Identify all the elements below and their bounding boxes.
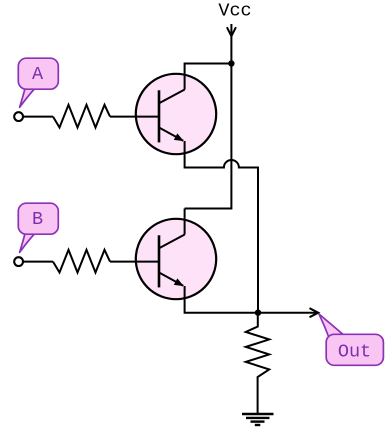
wire resistor R2 to Q2 base bbox=[110, 261, 159, 263]
callout bubble Out bbox=[319, 314, 383, 365]
output node dot bbox=[255, 310, 261, 316]
wire Q1 collector to Vcc rail bbox=[185, 64, 232, 90]
svg-text:B: B bbox=[32, 209, 43, 230]
node junction dot at Vcc rail bbox=[228, 60, 234, 66]
wire terminal A to resistor R1 bbox=[23, 116, 53, 118]
wire terminal B to resistor R2 bbox=[23, 261, 53, 263]
svg-text:Vcc: Vcc bbox=[218, 1, 251, 22]
svg-text:A: A bbox=[32, 64, 44, 85]
resistor R3 (pull-down) bbox=[246, 316, 269, 413]
resistor R1 bbox=[53, 105, 110, 128]
wire resistor R1 to Q1 base bbox=[110, 116, 159, 118]
wire Q1 emitter down, hop over Vcc rail, to output rail bbox=[185, 141, 258, 313]
callout bubble A bbox=[18, 58, 58, 107]
input terminal B bbox=[14, 257, 23, 266]
transistor Q1 bbox=[136, 74, 216, 154]
input terminal A bbox=[14, 112, 23, 121]
wire Vcc rail down to Q2 collector corner bbox=[185, 64, 232, 209]
ground bbox=[242, 414, 274, 425]
Vcc supply lead with arrow bbox=[227, 24, 236, 64]
wire Q2 emitter down and right to output node bbox=[185, 286, 258, 313]
transistor Q2 bbox=[136, 219, 216, 299]
svg-text:Out: Out bbox=[338, 342, 371, 363]
callout bubble B bbox=[18, 203, 58, 252]
wire output node to arrow bbox=[258, 308, 318, 317]
wire Q2 collector up to corner bbox=[184, 209, 186, 235]
resistor R2 bbox=[53, 250, 110, 273]
